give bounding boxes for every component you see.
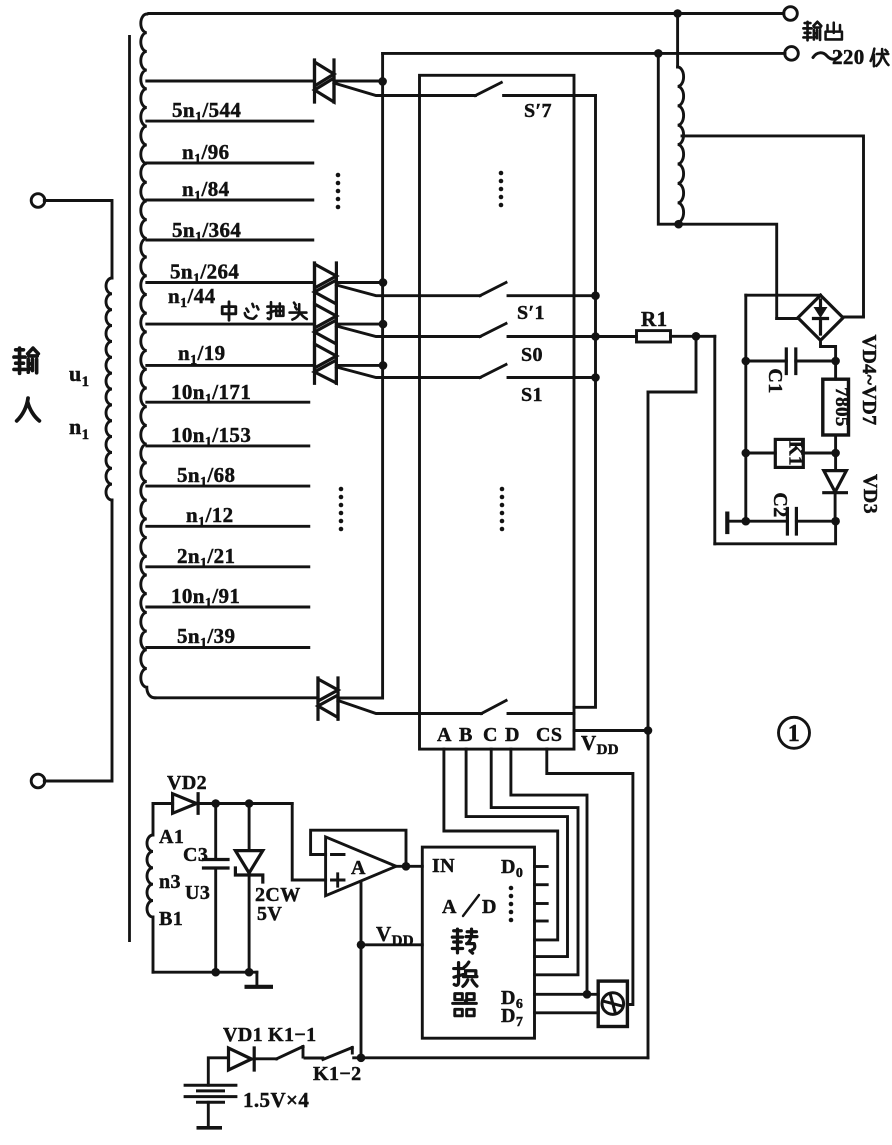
switch S'7 bbox=[475, 83, 595, 123]
wire triac1 to bus bbox=[336, 278, 387, 287]
relay coil K1 bbox=[746, 439, 836, 467]
label n1/44 bbox=[168, 284, 216, 311]
label A/D bbox=[442, 895, 497, 918]
wire R1 right to junction bbox=[671, 335, 715, 338]
svg-text:S′1: S′1 bbox=[517, 302, 545, 324]
svg-text:VD2: VD2 bbox=[167, 772, 207, 794]
wire tap 10n1/171 bbox=[147, 380, 309, 407]
node C1 right bbox=[831, 357, 840, 366]
bridge rectifier VD4~VD7 bbox=[798, 295, 843, 340]
ellipsis taps lower bbox=[339, 487, 344, 532]
label pins A B C D CS bbox=[437, 724, 562, 746]
node output line / coil junction bbox=[673, 9, 682, 18]
wire tap 5n1/264 bbox=[147, 260, 315, 287]
switch S1 bbox=[480, 365, 596, 407]
wire triac output bus (left vertical) bbox=[338, 53, 383, 698]
ellipsis inside box upper bbox=[499, 171, 504, 208]
winding secondary (tapped) bbox=[141, 14, 155, 698]
node U3 top bbox=[245, 799, 254, 808]
svg-text:5V: 5V bbox=[257, 903, 282, 925]
wire bridge plus to left rail bbox=[746, 294, 821, 297]
label 器 bbox=[453, 994, 477, 1016]
winding tertiary n3 bbox=[147, 804, 153, 973]
node S0 line at bus2 bbox=[591, 332, 600, 341]
switch K1-1 bbox=[268, 1024, 323, 1059]
wire tap 5n1/68 bbox=[147, 463, 309, 490]
label ~220伏 bbox=[813, 45, 888, 69]
wire tap 10n1/153 bbox=[147, 423, 309, 450]
wire tap center tap bbox=[147, 323, 315, 326]
wire switch common bus2 (right vertical) bbox=[574, 96, 596, 708]
node K1 right bbox=[831, 449, 840, 458]
node C3 bottom bbox=[211, 968, 220, 977]
node op-amp output bbox=[402, 862, 411, 871]
svg-text:D: D bbox=[505, 724, 520, 746]
svg-text:n1/12: n1/12 bbox=[186, 503, 234, 530]
svg-text:1: 1 bbox=[788, 721, 800, 747]
wire tap n1/19 bbox=[147, 341, 315, 368]
svg-text:VD4~VD7: VD4~VD7 bbox=[858, 335, 880, 426]
label 转 bbox=[452, 929, 477, 953]
wire tap n1/84 bbox=[147, 177, 313, 204]
label 中心抽头 bbox=[222, 302, 307, 320]
node C3 top bbox=[211, 799, 220, 808]
label D7 bbox=[501, 1005, 523, 1030]
diode VD1 bbox=[223, 1024, 277, 1070]
pin stub D1 bbox=[535, 883, 548, 886]
ellipsis A/D data bbox=[509, 886, 514, 923]
wire tap to top triac bbox=[147, 80, 313, 83]
zener diode U3 bbox=[185, 804, 263, 973]
wire D-out to B line bbox=[466, 749, 567, 957]
triac stack middle (three triacs) bbox=[315, 263, 337, 383]
node C1 left bbox=[742, 357, 751, 366]
wire tap 5n1/39 bbox=[147, 624, 309, 651]
wire VDD from box to supply vertical bbox=[574, 729, 648, 732]
svg-text:C: C bbox=[483, 724, 498, 746]
pin stub D0 bbox=[535, 865, 548, 868]
wire input lower lead bbox=[44, 500, 112, 781]
svg-text:A: A bbox=[442, 896, 457, 918]
svg-text:B: B bbox=[459, 724, 473, 746]
pin stub D2 bbox=[535, 902, 548, 905]
wire output line 2 down to coil bottom bbox=[658, 53, 776, 318]
wire triac2 to bus bbox=[336, 320, 387, 329]
svg-text:C2: C2 bbox=[769, 492, 791, 517]
diode VD3 bbox=[824, 471, 847, 522]
label 2CW 5V bbox=[255, 884, 301, 925]
node VDD lower junction bbox=[357, 941, 366, 950]
label VDD lower bbox=[376, 922, 414, 949]
node C2 left bbox=[742, 517, 751, 526]
capacitor C3 bbox=[183, 804, 228, 973]
node coil bottom bbox=[674, 220, 683, 229]
svg-text:A1: A1 bbox=[159, 826, 184, 848]
wire diagonal triac2 to S0 line bbox=[336, 326, 480, 337]
wire second output line bbox=[383, 52, 785, 55]
label 输入 (vertical) bbox=[14, 348, 39, 421]
label u1 bbox=[69, 361, 90, 390]
svg-text:A: A bbox=[437, 724, 452, 746]
svg-text:IN: IN bbox=[432, 855, 455, 877]
wire D7 to indicator bbox=[535, 1011, 599, 1014]
node S'1 to bus2 bbox=[591, 291, 600, 300]
svg-text:5n1/544: 5n1/544 bbox=[172, 98, 241, 125]
wire tap n1/96 bbox=[147, 140, 313, 167]
box switch array bbox=[420, 75, 575, 749]
label D0 bbox=[501, 856, 523, 881]
svg-text:5n1/264: 5n1/264 bbox=[170, 260, 239, 287]
wire R1 node to supply vertical bbox=[648, 336, 696, 392]
wire tertiary bottom rail bbox=[153, 971, 257, 974]
wire input upper lead bbox=[44, 201, 112, 279]
winding output auxiliary bbox=[678, 67, 684, 222]
switch bottom bbox=[481, 701, 574, 714]
label D6 bbox=[501, 987, 523, 1012]
switch S'1 bbox=[480, 283, 596, 325]
svg-text:7805: 7805 bbox=[831, 387, 852, 427]
wire VDD vertical to battery line bbox=[360, 882, 363, 1058]
svg-text:C1: C1 bbox=[764, 368, 786, 393]
wire diagonal bottom triac to bottom switch line bbox=[338, 701, 481, 714]
wire top output line bbox=[149, 12, 784, 15]
label figure number 1 bbox=[779, 717, 810, 748]
wire tap n1/12 bbox=[147, 503, 309, 530]
svg-text:K1−1: K1−1 bbox=[268, 1024, 317, 1046]
label C2 (rotated) bbox=[769, 492, 791, 517]
label C1 (rotated) bbox=[764, 368, 786, 393]
terminal input lower bbox=[31, 774, 45, 788]
wire diagonal triac1 to S'1 line bbox=[336, 285, 480, 296]
terminal output lower bbox=[785, 47, 799, 61]
wire D6 to D line bbox=[511, 749, 598, 994]
wire top triac to bus bbox=[334, 80, 383, 83]
label 换 bbox=[454, 962, 477, 986]
label VD4~VD7 (rotated) bbox=[858, 335, 880, 426]
wire PSU bottom rail bbox=[715, 521, 836, 544]
label VDD upper bbox=[581, 731, 619, 758]
label 输出 bbox=[803, 22, 842, 40]
node bus top triac bbox=[378, 77, 387, 86]
wire triac3 to bus bbox=[336, 361, 387, 370]
triac VT bottom bbox=[318, 678, 338, 719]
svg-text:n1/19: n1/19 bbox=[178, 341, 226, 368]
svg-text:K1−2: K1−2 bbox=[313, 1063, 362, 1085]
svg-text:n1/44: n1/44 bbox=[168, 284, 216, 311]
svg-text:5n1/364: 5n1/364 bbox=[172, 218, 241, 245]
ground PSU bbox=[725, 512, 729, 535]
pin stub D3 bbox=[535, 920, 548, 923]
op-amp A bbox=[326, 837, 397, 896]
transformer core bbox=[128, 35, 131, 942]
svg-text:B1: B1 bbox=[159, 908, 183, 930]
box A/D converter bbox=[422, 847, 534, 1038]
wire feedback loop bbox=[311, 830, 406, 866]
label IN bbox=[432, 855, 455, 877]
ground control circuit bbox=[245, 972, 274, 987]
wire tap 10n1/91 bbox=[147, 584, 309, 611]
wire op-amp output to IN bbox=[396, 865, 422, 868]
svg-text:VD1: VD1 bbox=[223, 1024, 263, 1046]
node S1 to bus2 bbox=[591, 373, 600, 382]
wire output coil top lead bbox=[676, 14, 679, 68]
svg-text:A: A bbox=[351, 857, 366, 879]
node VDD tap bbox=[644, 726, 653, 735]
label B1 bbox=[159, 908, 183, 930]
diode VD2 bbox=[167, 772, 207, 813]
svg-text:K1: K1 bbox=[784, 441, 805, 466]
node U3 bottom bbox=[245, 968, 254, 977]
svg-text:1.5V×4: 1.5V×4 bbox=[243, 1088, 309, 1112]
svg-text:D: D bbox=[482, 896, 497, 918]
node D6 junction bbox=[583, 990, 592, 999]
wire VDD to A/D box bbox=[361, 943, 422, 946]
ellipsis inside box lower bbox=[500, 487, 505, 532]
wire diagonal triac3 to S1 line bbox=[336, 367, 480, 378]
wire coil mid tap to bridge AC2 bbox=[682, 136, 864, 316]
node battery supply bbox=[357, 1054, 366, 1063]
capacitor C2 bbox=[727, 509, 835, 535]
ellipsis taps upper bbox=[336, 173, 341, 210]
wire D-out to A line bbox=[444, 749, 558, 940]
node K1 left bbox=[742, 449, 751, 458]
wire supply vertical (VDD rail) bbox=[647, 392, 650, 1058]
switch K1-2 bbox=[313, 1048, 362, 1086]
triac VT top bbox=[315, 60, 335, 102]
wire junction down to PSU bottom rail bbox=[713, 336, 716, 544]
svg-text:S′7: S′7 bbox=[524, 100, 552, 122]
svg-text:S0: S0 bbox=[521, 344, 543, 366]
label VD3 (rotated) bbox=[859, 474, 881, 514]
switch S0 bbox=[480, 324, 637, 367]
wire PSU left rail bbox=[744, 295, 747, 521]
svg-text:n1/84: n1/84 bbox=[182, 177, 230, 204]
regulator 7805 bbox=[823, 361, 852, 471]
wire D-out to C line bbox=[491, 749, 578, 975]
wire tap 5n1/364 bbox=[147, 218, 313, 245]
wire bridge AC1 lead bbox=[777, 317, 798, 320]
label n3 bbox=[159, 871, 181, 893]
node R1 output bbox=[692, 332, 701, 341]
svg-text:n1/96: n1/96 bbox=[182, 140, 230, 167]
wire bridge AC2 lead bbox=[843, 316, 863, 319]
terminal output upper bbox=[784, 7, 798, 21]
node C2 right bbox=[831, 517, 840, 526]
label A1 bbox=[159, 826, 184, 848]
svg-text:VD3: VD3 bbox=[859, 474, 881, 514]
svg-text:220: 220 bbox=[832, 45, 865, 69]
svg-text:U3: U3 bbox=[185, 882, 210, 904]
winding primary bbox=[106, 278, 112, 500]
svg-text:CS: CS bbox=[536, 724, 562, 746]
svg-text:R1: R1 bbox=[641, 307, 667, 331]
wire reference to op-amp plus input bbox=[292, 804, 325, 881]
svg-text:S1: S1 bbox=[521, 384, 543, 406]
resistor R1 bbox=[637, 307, 671, 342]
battery 1.5Vx4 bbox=[184, 1058, 310, 1128]
terminal input upper bbox=[31, 194, 45, 208]
wire tap 2n1/21 bbox=[147, 544, 309, 571]
svg-text:C3: C3 bbox=[183, 844, 208, 866]
label n1 bbox=[69, 414, 90, 443]
wire tertiary top lead bbox=[153, 802, 292, 805]
indicator with cross bbox=[598, 981, 627, 1026]
wire winding bottom to triac bbox=[155, 696, 318, 699]
svg-text:n3: n3 bbox=[159, 871, 181, 893]
wire battery line to supply vertical bbox=[361, 1056, 648, 1059]
wire tap 5n1/544 bbox=[147, 98, 313, 125]
wire CS line to indicator right bbox=[547, 749, 633, 1004]
wire bridge bottom to right rail bbox=[821, 340, 836, 361]
wire diagonal top triac to S'7 line bbox=[334, 83, 475, 96]
capacitor C1 bbox=[746, 349, 836, 374]
node second output line bbox=[654, 49, 663, 58]
